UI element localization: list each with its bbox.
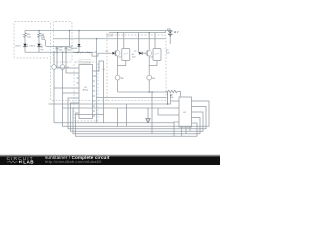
svg-text:D4: D4: [106, 51, 108, 53]
svg-text:LAB: LAB: [23, 160, 34, 165]
transistor Q1: [114, 50, 120, 56]
speaker LS2: [60, 52, 76, 126]
diode D3: [71, 31, 81, 53]
dashed enclosure box B left border and bottom: [51, 59, 167, 101]
wire rail y108: [63, 107, 177, 109]
dashed enclosure box C: [107, 35, 166, 101]
svg-text:Q1: Q1: [119, 57, 122, 59]
svg-text:ATtiny: ATtiny: [83, 88, 89, 91]
LED D2: [30, 44, 43, 53]
logo CircuitLab: [7, 156, 35, 165]
wire rail y97.5: [97, 97, 167, 99]
wire rail y104: [49, 95, 177, 104]
relay K1: [118, 33, 130, 66]
svg-text:D5: D5: [134, 51, 136, 53]
wire drop x69.5: [69, 31, 71, 47]
svg-text:LED1: LED1: [15, 46, 21, 48]
transistor Q2: [146, 50, 152, 56]
resistor R1: [24, 31, 32, 44]
resistor R2: [38, 31, 46, 44]
wire net W2 rail: [53, 38, 166, 40]
wire Q2 collector: [148, 33, 150, 51]
wire VCC top rail: [25, 29, 170, 31]
svg-text:12 V: 12 V: [174, 31, 179, 34]
thermistor TH1: [56, 47, 64, 53]
wire rail y92: [118, 92, 168, 104]
LED D1: [15, 44, 28, 53]
wire stub x126.5: [126, 104, 128, 126]
ground arrow: [146, 108, 150, 123]
battery V1: [168, 31, 179, 44]
svg-text:sig: sig: [40, 49, 43, 51]
diode D5: [134, 51, 147, 55]
wire Q2 emitter: [148, 56, 150, 75]
enclosure C title tab: [106, 33, 113, 37]
wire Q1 collector: [117, 33, 119, 51]
dashed enclosure box A: [14, 22, 50, 59]
driver U2: [177, 97, 195, 136]
diode D4: [106, 51, 116, 55]
wire wrap 1: [54, 122, 177, 136]
svg-text:Processing: Processing: [79, 61, 91, 64]
wire drop x138.5: [138, 33, 140, 54]
node junction dots: [38, 30, 171, 105]
wire wrap 2: [63, 101, 210, 126]
svg-text:http://circuitlab.com/c6uka59: http://circuitlab.com/c6uka59: [45, 159, 102, 164]
wire U1 pin to riser x103.5: [95, 61, 104, 123]
dashed enclosure box A2: [54, 22, 73, 63]
wire U3 pin3 feed: [158, 108, 177, 115]
wire TH2 to U1: [66, 52, 77, 73]
dashed enclosure Processing: [74, 62, 98, 121]
svg-text:12V: 12V: [132, 56, 136, 58]
svg-text:12V: 12V: [166, 52, 170, 54]
wire wrap 3: [68, 98, 206, 129]
wire wrap 6: [76, 113, 198, 136]
Processing title tab: [79, 60, 92, 64]
svg-text:LED2: LED2: [30, 46, 36, 48]
thermistor TH2: [65, 47, 73, 53]
wire Q1 emitter: [117, 56, 119, 75]
wire net W1 with jog: [42, 39, 70, 46]
wire wrap 5: [73, 108, 200, 134]
motor M1: [115, 75, 120, 92]
wire mid riser x96.5: [96, 39, 98, 123]
speaker LS1: [52, 52, 77, 122]
svg-text:Q2: Q2: [150, 57, 153, 59]
svg-text:Keeping the voltage to CV: Keeping the voltage to CV: [74, 51, 98, 54]
microcontroller U1: [77, 65, 96, 119]
wire U1 pin76 stub: [95, 75, 97, 77]
resistor R8: [166, 90, 181, 104]
wire signal rail with jog: [25, 52, 112, 56]
wire stub x152: [151, 92, 153, 134]
wire rail y114.5: [76, 114, 105, 116]
wire relay supply rail: [109, 31, 166, 33]
motor M2: [147, 75, 152, 92]
svg-text:1N4148: 1N4148: [71, 48, 78, 50]
wire TH1 to U1: [57, 52, 77, 68]
svg-text:Relays: Relays: [107, 35, 113, 37]
footer bar: [0, 154, 220, 165]
wire wrap 4: [71, 103, 204, 131]
relay K2: [149, 33, 161, 66]
wire stub x117.5: [117, 108, 119, 126]
